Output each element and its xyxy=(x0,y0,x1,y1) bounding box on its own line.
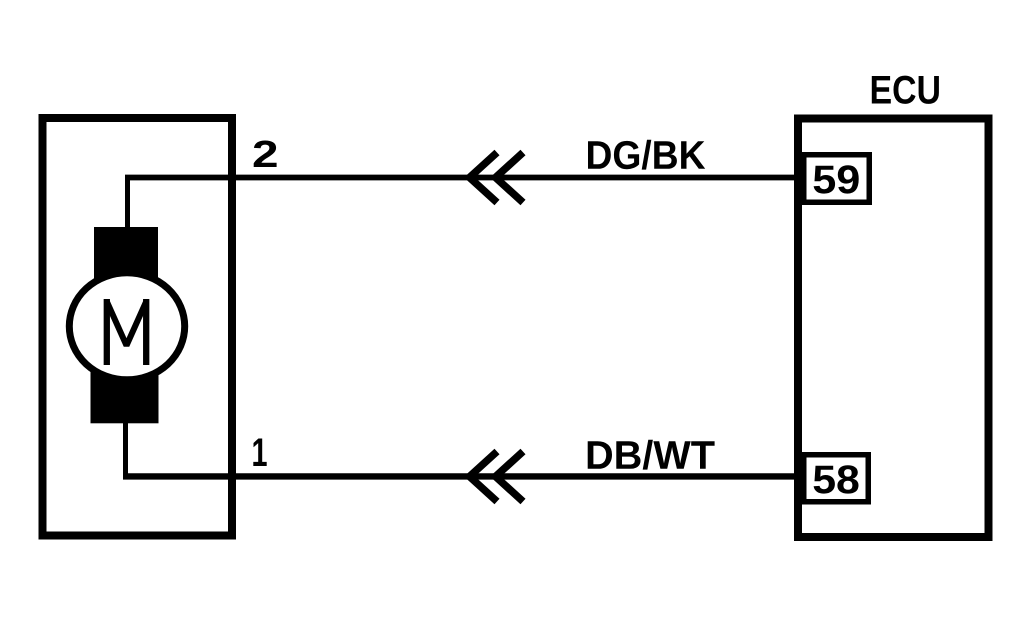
motor M1 body circle xyxy=(69,273,184,380)
motor letter M middle V xyxy=(107,302,146,346)
wire 1: DB/WT horizontal from motor to ECU pin 58 xyxy=(123,473,802,479)
arrow chevrons on wire 2 xyxy=(470,153,524,203)
pin number label 1 xyxy=(253,439,266,467)
motor letter M left stem xyxy=(104,299,110,365)
ECU pin 58 box xyxy=(804,455,869,502)
wire 2: DG/BK horizontal from motor to ECU pin 59 xyxy=(125,175,802,181)
ECU pin 59 box xyxy=(804,155,870,203)
motor letter M right stem xyxy=(143,299,149,365)
arrow chevrons on wire 1 xyxy=(470,452,524,502)
wire 2: vertical segment down to motor top brush xyxy=(125,175,130,232)
ECU pin 58 label xyxy=(814,465,859,493)
motor assembly box xyxy=(43,118,233,536)
motor brush terminal top xyxy=(94,227,158,282)
motor brush terminal bottom xyxy=(91,370,159,423)
pin number label 2 xyxy=(254,141,277,168)
wire 1: vertical segment up to motor bottom brush xyxy=(123,420,128,478)
wire color label DG/BK xyxy=(588,140,705,170)
wire color label DB/WT xyxy=(588,440,715,470)
ECU label xyxy=(872,76,939,104)
ECU pin 59 label xyxy=(814,165,859,193)
ECU box xyxy=(798,119,989,538)
